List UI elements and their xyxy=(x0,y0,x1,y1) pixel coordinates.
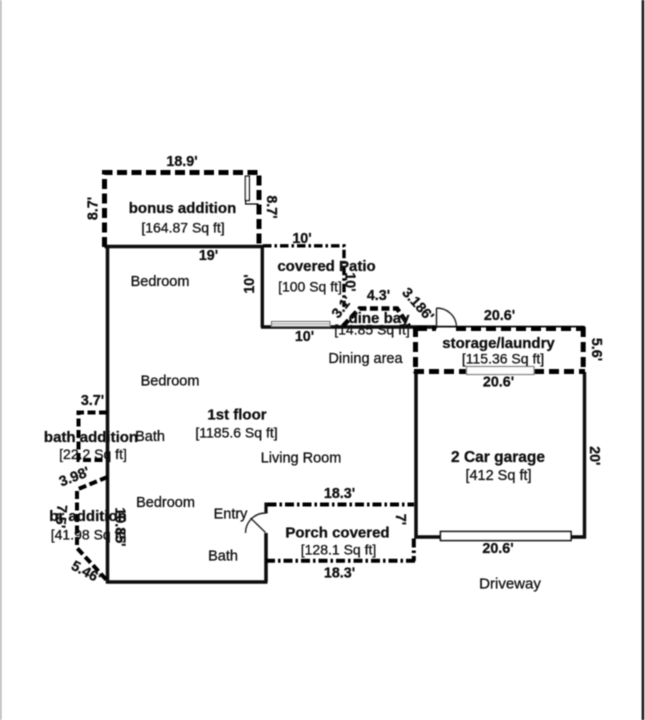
svg-text:[1185.6 Sq ft]: [1185.6 Sq ft] xyxy=(195,425,277,441)
svg-text:[128.1 Sq ft]: [128.1 Sq ft] xyxy=(301,542,377,558)
svg-text:20.6': 20.6' xyxy=(483,375,514,391)
svg-text:Dining area: Dining area xyxy=(328,351,403,367)
svg-text:[100 Sq ft]: [100 Sq ft] xyxy=(278,279,342,295)
svg-text:[412 Sq ft]: [412 Sq ft] xyxy=(465,468,531,484)
svg-text:[22.2 Sq ft]: [22.2 Sq ft] xyxy=(59,446,127,462)
svg-text:[115.36 Sq ft]: [115.36 Sq ft] xyxy=(462,351,544,367)
svg-text:19': 19' xyxy=(199,248,218,264)
svg-text:1st floor: 1st floor xyxy=(207,407,266,424)
svg-text:8.7': 8.7' xyxy=(263,195,279,218)
svg-text:7': 7' xyxy=(392,514,408,525)
svg-text:Living Room: Living Room xyxy=(261,451,342,467)
svg-text:3.7': 3.7' xyxy=(81,393,104,409)
svg-text:18.9': 18.9' xyxy=(166,154,197,170)
svg-text:4.3': 4.3' xyxy=(367,288,390,304)
svg-text:Porch covered: Porch covered xyxy=(285,525,389,542)
svg-text:Driveway: Driveway xyxy=(479,576,541,593)
svg-text:[41.98 Sq ft]: [41.98 Sq ft] xyxy=(51,527,127,543)
svg-text:18.3': 18.3' xyxy=(324,486,355,502)
svg-text:Entry: Entry xyxy=(214,507,249,523)
svg-text:10': 10' xyxy=(342,272,358,291)
svg-text:18.3': 18.3' xyxy=(324,566,355,582)
svg-text:covered Patio: covered Patio xyxy=(277,258,375,275)
svg-text:Bedroom: Bedroom xyxy=(131,274,190,290)
svg-text:10': 10' xyxy=(295,329,314,345)
svg-text:bonus addition: bonus addition xyxy=(129,200,236,217)
svg-text:10': 10' xyxy=(242,274,258,293)
svg-text:Bedroom: Bedroom xyxy=(141,374,200,390)
svg-text:20.6': 20.6' xyxy=(484,308,515,324)
svg-text:[164.87 Sq ft]: [164.87 Sq ft] xyxy=(141,220,224,236)
svg-text:8.7': 8.7' xyxy=(86,197,102,220)
svg-text:10': 10' xyxy=(292,231,311,247)
svg-text:3.98': 3.98' xyxy=(57,464,92,490)
svg-text:[14.85 Sq ft]: [14.85 Sq ft] xyxy=(334,322,410,338)
svg-text:2 Car garage: 2 Car garage xyxy=(451,449,545,466)
svg-text:storage/laundry: storage/laundry xyxy=(442,335,555,352)
svg-text:br addition: br addition xyxy=(49,508,127,525)
svg-text:20': 20' xyxy=(586,446,602,465)
svg-text:bath addition: bath addition xyxy=(44,429,138,446)
svg-text:5.46': 5.46' xyxy=(68,558,103,587)
svg-text:5.6': 5.6' xyxy=(588,338,604,361)
svg-text:Bath: Bath xyxy=(208,549,238,565)
svg-text:20.6': 20.6' xyxy=(482,541,513,557)
svg-text:Bedroom: Bedroom xyxy=(136,495,195,511)
svg-text:Bath: Bath xyxy=(135,429,165,445)
